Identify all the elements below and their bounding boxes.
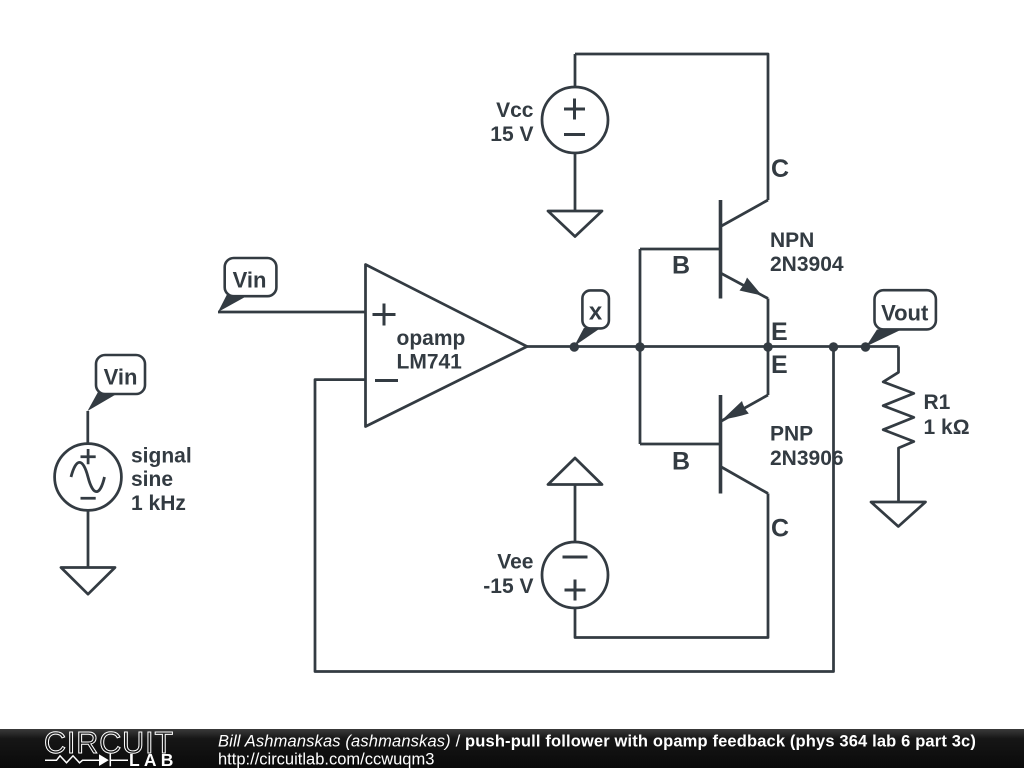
svg-text:Vin: Vin — [104, 365, 138, 390]
svg-text:opamp: opamp — [397, 327, 466, 350]
svg-text:Vin: Vin — [233, 268, 267, 293]
svg-text:Vcc: Vcc — [496, 99, 534, 122]
svg-text:Vee: Vee — [497, 551, 533, 574]
svg-text:2N3904: 2N3904 — [770, 253, 844, 276]
svg-text:PNP: PNP — [770, 423, 813, 446]
svg-text:1 kΩ: 1 kΩ — [924, 416, 970, 439]
svg-text:sine: sine — [131, 468, 173, 491]
svg-text:Vout: Vout — [881, 300, 929, 325]
svg-text:signal: signal — [131, 445, 192, 468]
svg-text:LM741: LM741 — [397, 351, 463, 374]
svg-text:E: E — [771, 351, 788, 379]
svg-text:http://circuitlab.com/ccwuqm3: http://circuitlab.com/ccwuqm3 — [218, 751, 434, 768]
svg-text:-15 V: -15 V — [483, 575, 533, 598]
svg-text:B: B — [672, 448, 690, 476]
svg-text:E: E — [771, 318, 788, 346]
svg-text:NPN: NPN — [770, 229, 814, 252]
svg-text:B: B — [672, 252, 690, 280]
svg-text:Bill Ashmanskas (ashmanskas) /: Bill Ashmanskas (ashmanskas) / push-pull… — [218, 733, 976, 751]
svg-text:R1: R1 — [924, 391, 951, 414]
svg-text:2N3906: 2N3906 — [770, 447, 844, 470]
svg-text:15 V: 15 V — [490, 123, 533, 146]
svg-text:C: C — [771, 515, 789, 543]
svg-text:x: x — [589, 299, 603, 326]
svg-text:LAB: LAB — [129, 750, 178, 768]
svg-text:1 kHz: 1 kHz — [131, 492, 186, 515]
svg-text:C: C — [771, 155, 789, 183]
